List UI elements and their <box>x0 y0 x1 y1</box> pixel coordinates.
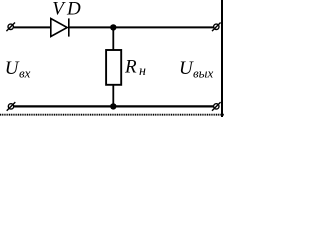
terminal: output bottom (right, slashed circle) <box>212 102 221 111</box>
node: top junction <box>110 24 116 30</box>
terminal: output top (right, slashed circle) <box>212 23 221 32</box>
svg-text:Uвых: Uвых <box>179 58 213 81</box>
svg-text:Uвх: Uвх <box>5 58 31 80</box>
terminal: input top (left, slashed circle) <box>6 23 15 32</box>
wire: resistor top lead <box>112 27 114 50</box>
node: bottom junction <box>110 103 116 109</box>
diode VD <box>51 18 69 36</box>
wire: top rail, diode cathode to output terminal <box>69 26 214 28</box>
wire: top rail, terminal to diode anode <box>14 26 51 28</box>
svg-text:Rн: Rн <box>124 56 146 79</box>
terminal: input bottom (left, slashed circle) <box>7 102 16 111</box>
wire: resistor bottom lead <box>112 85 114 107</box>
wire: bottom rail <box>14 105 213 107</box>
svg-text:VD: VD <box>52 0 84 20</box>
resistor Rн <box>106 50 121 85</box>
